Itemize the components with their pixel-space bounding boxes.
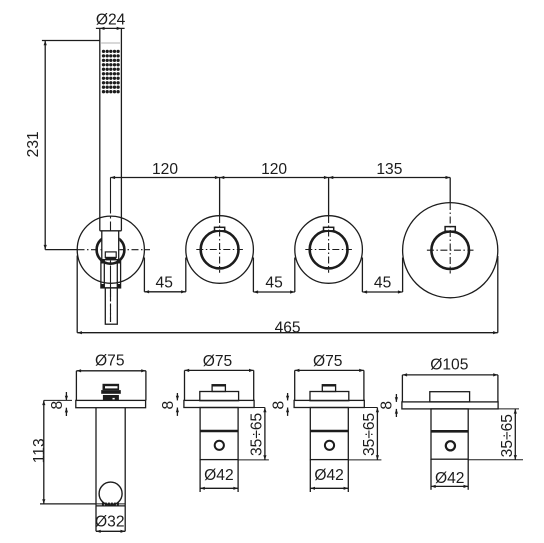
svg-text:45: 45: [156, 275, 174, 292]
svg-text:135: 135: [376, 161, 402, 178]
svg-text:Ø75: Ø75: [313, 353, 343, 370]
svg-text:45: 45: [265, 275, 283, 292]
svg-text:35÷65: 35÷65: [249, 412, 266, 456]
svg-text:120: 120: [152, 161, 178, 178]
svg-text:8: 8: [49, 401, 66, 410]
svg-text:231: 231: [25, 131, 42, 157]
svg-text:35÷65: 35÷65: [361, 412, 378, 456]
svg-text:Ø105: Ø105: [430, 357, 468, 374]
svg-text:8: 8: [379, 401, 396, 410]
svg-text:Ø42: Ø42: [435, 470, 464, 487]
svg-text:Ø42: Ø42: [314, 467, 343, 484]
svg-text:45: 45: [374, 275, 392, 292]
svg-text:Ø42: Ø42: [204, 467, 233, 484]
svg-text:Ø75: Ø75: [203, 353, 233, 370]
svg-text:Ø75: Ø75: [95, 353, 125, 370]
svg-text:35÷65: 35÷65: [499, 414, 516, 458]
svg-text:120: 120: [261, 161, 287, 178]
svg-text:Ø32: Ø32: [95, 514, 124, 531]
svg-text:8: 8: [160, 401, 177, 410]
svg-text:465: 465: [275, 319, 301, 336]
svg-text:113: 113: [31, 438, 48, 463]
svg-text:8: 8: [270, 401, 287, 410]
svg-text:Ø24: Ø24: [96, 12, 126, 29]
